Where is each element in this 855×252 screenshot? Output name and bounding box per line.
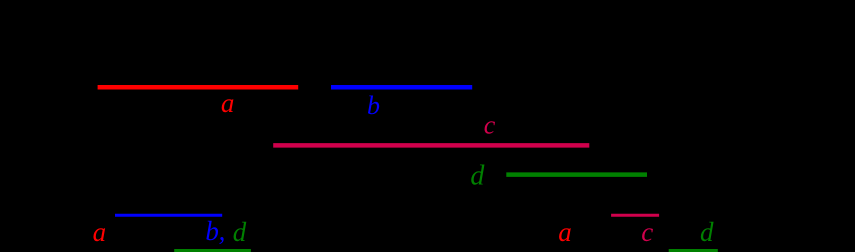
interval c (crimson segment) [273,143,589,148]
solution 1: interval d (green segment, bottom left) [174,249,251,252]
svg-text:a: a [221,88,235,118]
interval d (green segment) [506,172,647,177]
solution 1: interval b (blue segment, bottom left) [115,214,222,217]
svg-text:b: b [367,91,380,120]
svg-text:a: a [558,217,572,247]
svg-text:d: d [470,160,485,191]
svg-text:d: d [700,217,714,247]
svg-text:c: c [641,217,653,247]
interval a (red segment) [98,85,299,90]
svg-text:a: a [93,217,107,247]
svg-text:,: , [219,216,226,246]
solution 2: interval d (green segment, bottom right) [669,249,718,252]
interval b (blue segment) [331,85,472,90]
svg-text:d: d [233,217,247,247]
solution 2: interval c (crimson segment, bottom right) [611,214,659,217]
svg-text:b: b [205,216,219,246]
svg-text:c: c [484,111,496,140]
